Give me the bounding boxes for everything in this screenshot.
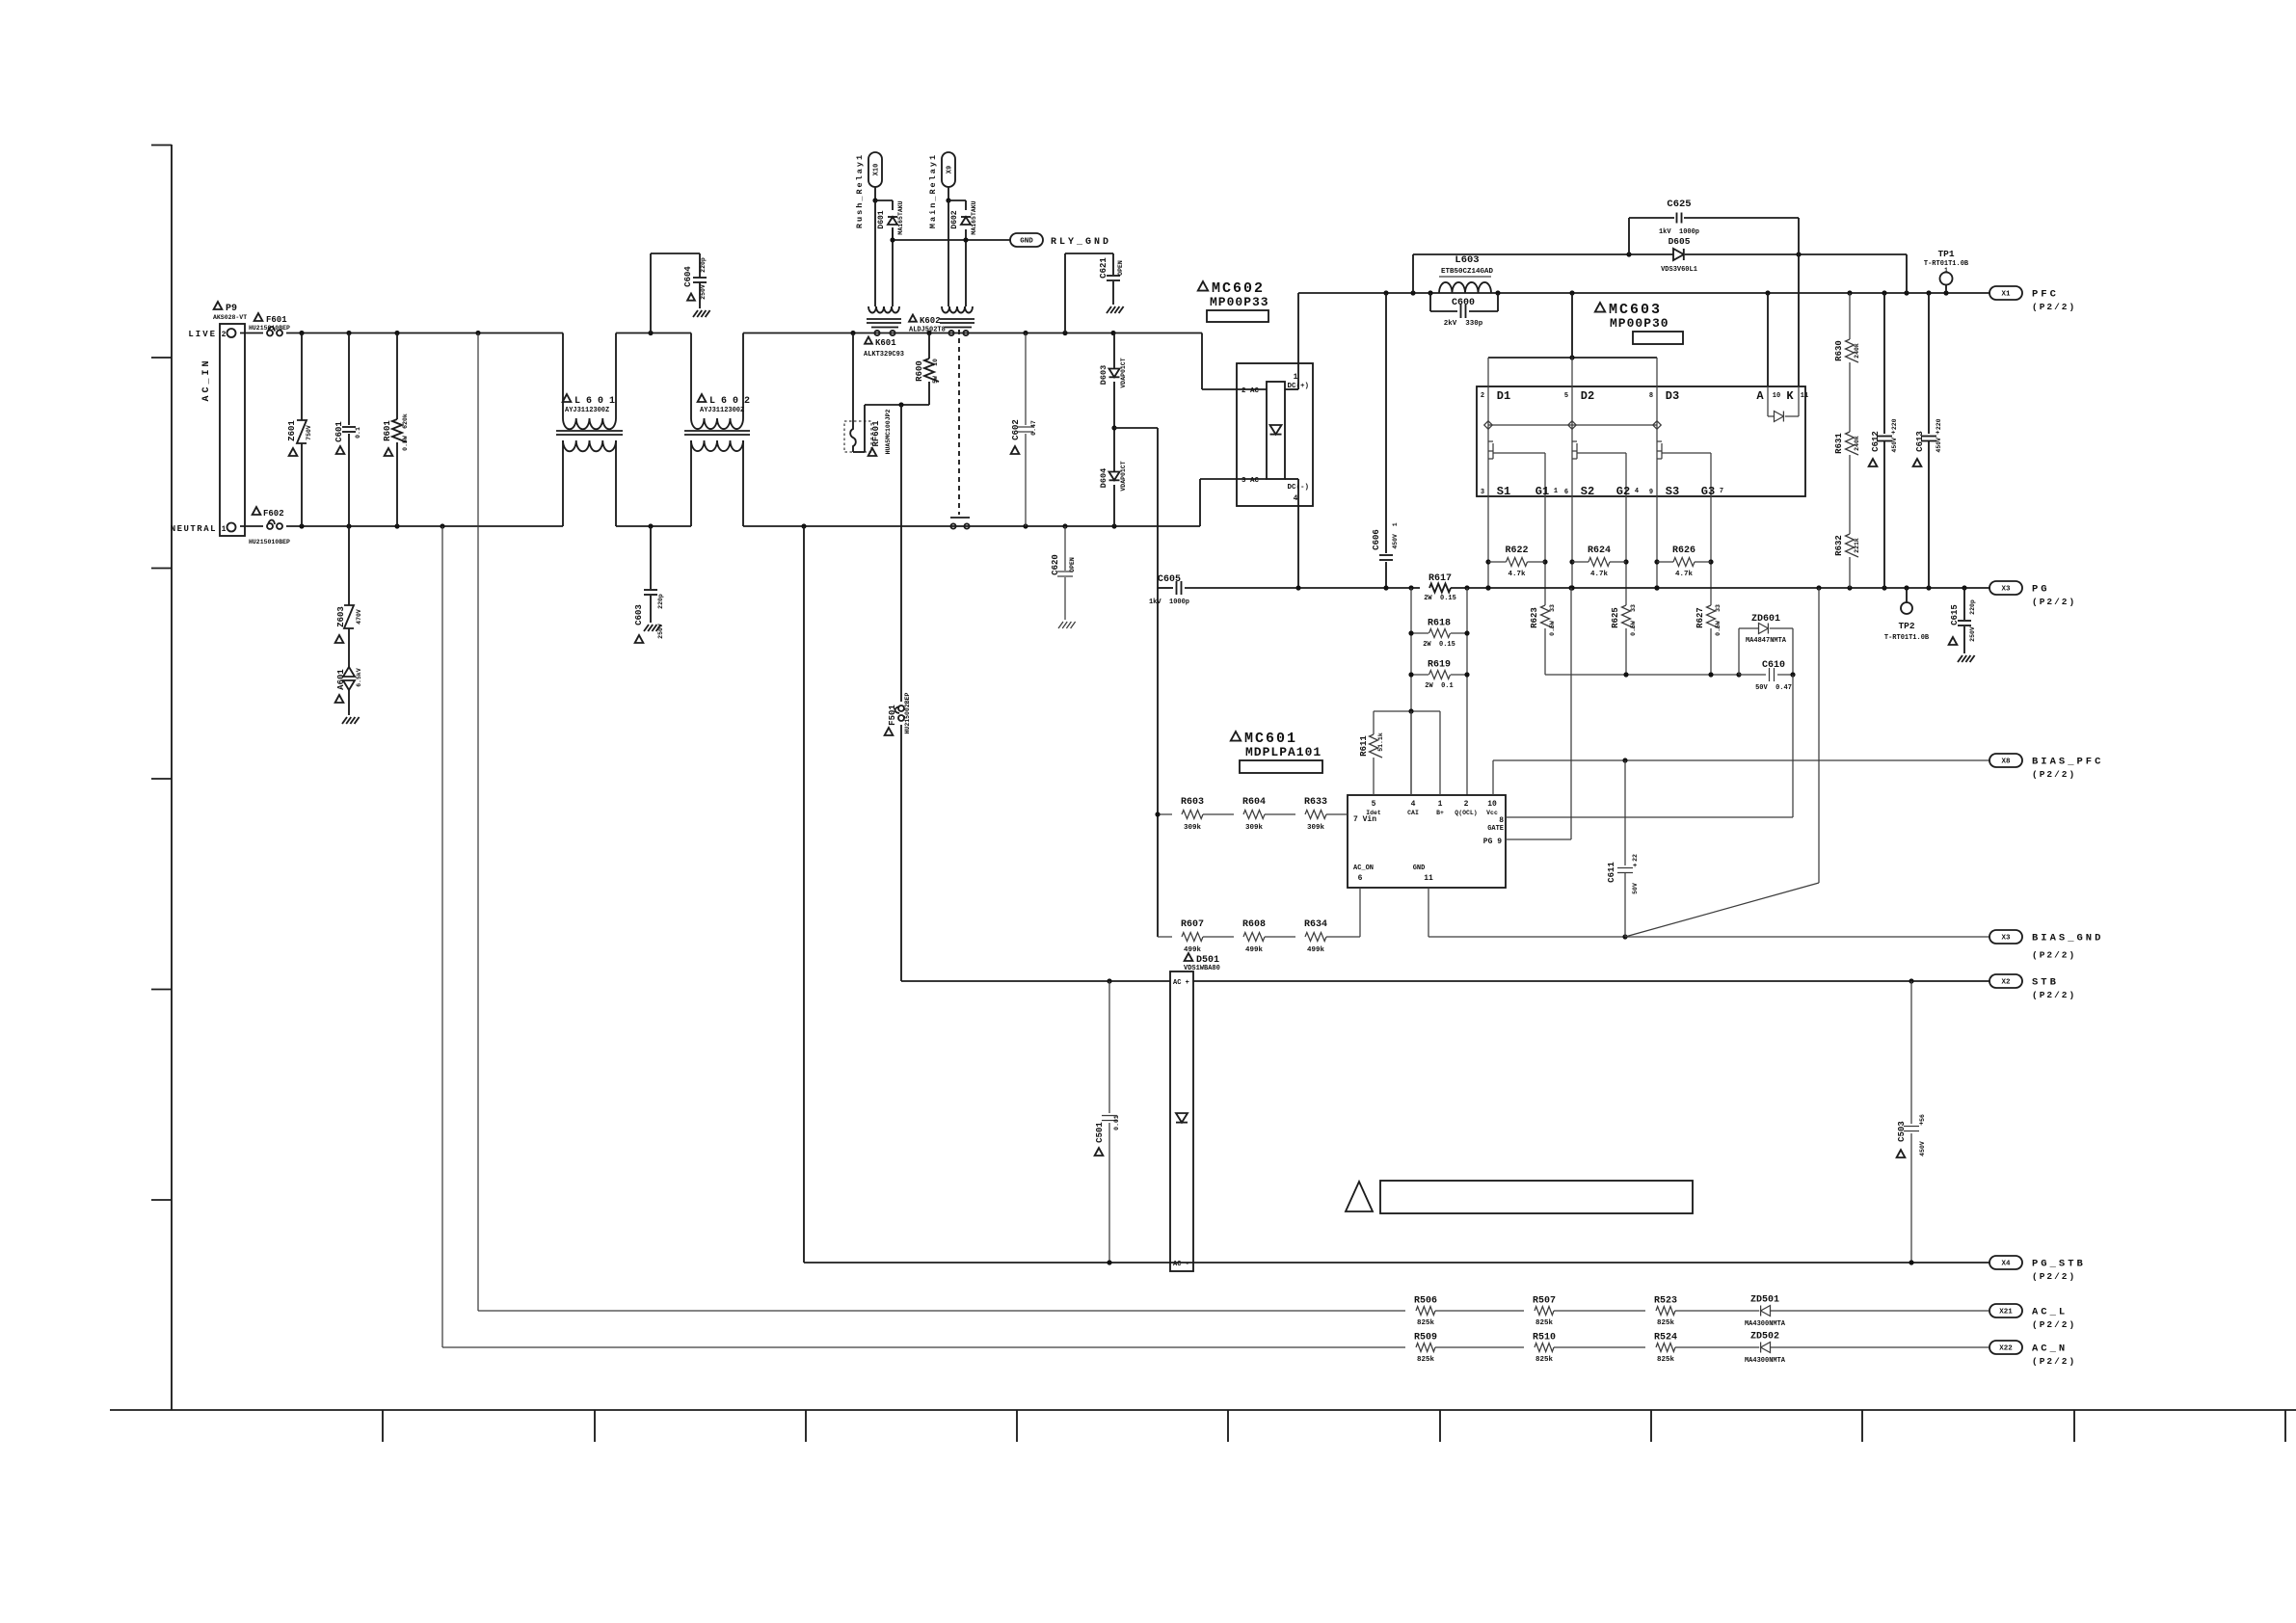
svg-text:HU215010BEP: HU215010BEP <box>249 539 290 545</box>
svg-text:OPEN: OPEN <box>1117 260 1124 276</box>
svg-text:L603: L603 <box>1455 254 1479 266</box>
svg-text:250V: 250V <box>1969 626 1976 642</box>
svg-text:K601: K601 <box>875 338 896 348</box>
svg-text:Z601: Z601 <box>287 420 297 441</box>
svg-text:7: 7 <box>1720 488 1723 495</box>
svg-text:ZD502: ZD502 <box>1750 1332 1779 1343</box>
svg-text:250V: 250V <box>700 284 707 300</box>
svg-text:C600: C600 <box>1452 298 1475 308</box>
svg-text:4: 4 <box>1635 488 1639 495</box>
svg-text:R608: R608 <box>1242 919 1266 930</box>
svg-text:240k: 240k <box>1854 343 1860 359</box>
svg-text:4.7k: 4.7k <box>1675 571 1694 578</box>
svg-text:221k: 221k <box>1854 538 1860 553</box>
svg-text:499k: 499k <box>1307 946 1325 954</box>
svg-text:(P2/2): (P2/2) <box>2032 769 2076 780</box>
svg-text:R507: R507 <box>1533 1296 1556 1307</box>
svg-text:AC +: AC + <box>1173 979 1189 987</box>
svg-text:C620: C620 <box>1051 554 1060 575</box>
svg-text:825k: 825k <box>1417 1319 1435 1327</box>
svg-text:3 AC: 3 AC <box>1241 477 1260 485</box>
svg-text:C613: C613 <box>1915 431 1925 452</box>
svg-text:R630: R630 <box>1834 340 1844 361</box>
svg-text:450V: 450V <box>1919 1141 1926 1157</box>
svg-text:R600: R600 <box>915 360 924 382</box>
svg-text:220p: 220p <box>657 594 664 609</box>
svg-text:T-RT01T1.0B: T-RT01T1.0B <box>1884 634 1930 642</box>
svg-text:R625: R625 <box>1611 607 1620 628</box>
svg-text:R619: R619 <box>1428 660 1451 671</box>
svg-text:G2: G2 <box>1616 485 1630 498</box>
svg-text:1kV 1000p: 1kV 1000p <box>1659 228 1699 236</box>
svg-text:K602: K602 <box>920 316 941 326</box>
svg-text:C603: C603 <box>634 604 644 625</box>
svg-text:X22: X22 <box>1999 1345 2013 1353</box>
svg-text:C606: C606 <box>1372 529 1381 550</box>
svg-text:C610: C610 <box>1762 660 1785 671</box>
svg-text:51.1k: 51.1k <box>1377 732 1384 752</box>
svg-text:R634: R634 <box>1304 919 1327 930</box>
svg-text:(P2/2): (P2/2) <box>2032 1271 2076 1282</box>
svg-text:50V 0.47: 50V 0.47 <box>1755 684 1792 692</box>
svg-text:BIAS_GND: BIAS_GND <box>2032 933 2103 945</box>
svg-text:0.1: 0.1 <box>355 427 361 439</box>
svg-text:309k: 309k <box>1184 824 1202 832</box>
svg-text:220p: 220p <box>1969 599 1976 615</box>
svg-text:AYJ3112300Z: AYJ3112300Z <box>565 407 609 414</box>
svg-text:CAI: CAI <box>1407 810 1419 816</box>
svg-text:MA4300NMTA: MA4300NMTA <box>1745 1320 1786 1328</box>
svg-text:R523: R523 <box>1654 1296 1677 1307</box>
svg-text:X3: X3 <box>2001 586 2011 594</box>
svg-text:33: 33 <box>1715 604 1722 612</box>
svg-text:GND: GND <box>1413 865 1426 872</box>
svg-text:C621: C621 <box>1099 257 1108 279</box>
svg-text:R623: R623 <box>1530 607 1539 628</box>
svg-text:TP2: TP2 <box>1898 621 1914 631</box>
svg-text:D3: D3 <box>1666 389 1679 403</box>
svg-text:ETB50CZ14GAD: ETB50CZ14GAD <box>1441 268 1494 276</box>
svg-text:X10: X10 <box>873 164 881 176</box>
svg-text:VDS1WBA80: VDS1WBA80 <box>1184 965 1220 972</box>
svg-text:(P2/2): (P2/2) <box>2032 302 2076 312</box>
svg-text:A601: A601 <box>336 669 346 690</box>
svg-text:X8: X8 <box>2001 758 2011 766</box>
svg-text:1: 1 <box>1554 488 1558 495</box>
svg-text:(P2/2): (P2/2) <box>2032 990 2076 1000</box>
svg-text:4.7k: 4.7k <box>1508 571 1526 578</box>
svg-text:MA165TAKU: MA165TAKU <box>897 200 904 234</box>
svg-text:F602: F602 <box>263 509 284 519</box>
svg-text:Rush_Relay1: Rush_Relay1 <box>855 153 865 228</box>
svg-text:S3: S3 <box>1666 485 1679 498</box>
svg-text:2 AC: 2 AC <box>1241 387 1260 395</box>
svg-text:MP00P30: MP00P30 <box>1610 316 1669 331</box>
svg-text:10: 10 <box>1773 392 1780 400</box>
svg-text:450V 220: 450V 220 <box>1891 418 1898 452</box>
svg-text:620k: 620k <box>402 413 409 429</box>
svg-text:Q(OCL): Q(OCL) <box>1455 810 1477 816</box>
svg-text:R622: R622 <box>1505 545 1528 556</box>
svg-text:L 6 0 2: L 6 0 2 <box>709 396 750 407</box>
svg-text:R607: R607 <box>1181 919 1204 930</box>
svg-text:2W 0.15: 2W 0.15 <box>1424 595 1456 602</box>
svg-text:R510: R510 <box>1533 1333 1556 1344</box>
svg-text:R617: R617 <box>1428 573 1452 584</box>
svg-text:TP1: TP1 <box>1937 249 1954 259</box>
svg-text:X1: X1 <box>2001 291 2011 299</box>
svg-text:D603: D603 <box>1099 365 1108 385</box>
svg-text:22: 22 <box>1632 854 1639 862</box>
svg-text:BIAS_PFC: BIAS_PFC <box>2032 757 2103 768</box>
svg-text:HU215002BEP: HU215002BEP <box>904 692 911 733</box>
svg-text:8: 8 <box>1499 816 1504 825</box>
svg-text:PG_STB: PG_STB <box>2032 1259 2086 1270</box>
svg-text:C615: C615 <box>1950 604 1960 625</box>
svg-text:AKS028-VT: AKS028-VT <box>213 314 247 321</box>
svg-text:ALDJ502T8: ALDJ502T8 <box>909 327 946 334</box>
svg-text:1kV 1000p: 1kV 1000p <box>1149 599 1189 606</box>
svg-text:RLY_GND: RLY_GND <box>1051 237 1111 248</box>
svg-text:C601: C601 <box>334 421 344 442</box>
svg-text:X4: X4 <box>2001 1261 2011 1268</box>
svg-text:0.47: 0.47 <box>1030 420 1037 436</box>
svg-text:R624: R624 <box>1588 545 1611 556</box>
svg-text:1: 1 <box>1438 800 1443 809</box>
svg-text:HU215010BEP: HU215010BEP <box>249 325 290 332</box>
svg-text:AYJ3112300Z: AYJ3112300Z <box>700 407 744 414</box>
svg-text:50V: 50V <box>1632 883 1639 894</box>
svg-text:0.01: 0.01 <box>1113 1115 1120 1131</box>
svg-text:0.5W: 0.5W <box>1630 621 1637 636</box>
svg-text:D1: D1 <box>1497 389 1510 403</box>
svg-text:2: 2 <box>222 331 227 339</box>
svg-text:6.5kV: 6.5kV <box>356 668 362 687</box>
svg-text:6: 6 <box>1564 489 1568 496</box>
svg-text:825k: 825k <box>1417 1356 1435 1364</box>
svg-text:C625: C625 <box>1667 199 1691 210</box>
svg-text:D605: D605 <box>1669 236 1691 247</box>
svg-text:2: 2 <box>1481 392 1484 400</box>
svg-text:R633: R633 <box>1304 797 1327 808</box>
svg-text:5: 5 <box>1372 800 1376 809</box>
svg-text:R603: R603 <box>1181 797 1204 808</box>
svg-text:9: 9 <box>1649 489 1653 496</box>
svg-text:GND: GND <box>1020 238 1033 246</box>
svg-text:ALKT329C93: ALKT329C93 <box>864 351 904 359</box>
svg-text:Vcc: Vcc <box>1486 810 1498 816</box>
svg-text:825k: 825k <box>1535 1319 1554 1327</box>
svg-text:C602: C602 <box>1011 419 1021 440</box>
svg-text:450V 1: 450V 1 <box>1392 522 1399 548</box>
svg-text:(P2/2): (P2/2) <box>2032 597 2076 607</box>
svg-text:C611: C611 <box>1607 862 1616 883</box>
svg-text:GATE: GATE <box>1487 825 1504 833</box>
svg-text:R604: R604 <box>1242 797 1266 808</box>
svg-text:C503: C503 <box>1897 1121 1907 1142</box>
svg-text:+: + <box>1633 863 1637 870</box>
svg-text:10: 10 <box>1487 800 1497 809</box>
svg-text:10: 10 <box>932 359 939 366</box>
svg-text:AC_N: AC_N <box>2032 1344 2068 1355</box>
svg-text:X2: X2 <box>2001 979 2011 987</box>
svg-text:C605: C605 <box>1158 574 1181 585</box>
svg-text:LIVE: LIVE <box>188 330 217 339</box>
svg-text:MA4847NMTA: MA4847NMTA <box>1746 637 1787 645</box>
svg-text:750V: 750V <box>306 425 312 440</box>
svg-text:R618: R618 <box>1428 619 1451 629</box>
svg-text:X21: X21 <box>1999 1309 2013 1317</box>
svg-text:56: 56 <box>1919 1114 1926 1122</box>
svg-text:309k: 309k <box>1245 824 1264 832</box>
svg-text:HUA5MC100JP2: HUA5MC100JP2 <box>885 409 892 454</box>
svg-text:R611: R611 <box>1359 735 1369 757</box>
svg-text:C501: C501 <box>1095 1122 1105 1143</box>
svg-text:A: A <box>1756 389 1764 403</box>
svg-text:P9: P9 <box>226 304 237 314</box>
svg-text:33: 33 <box>1549 604 1556 612</box>
svg-text:PG 9: PG 9 <box>1483 838 1502 846</box>
svg-text:PG: PG <box>2032 584 2050 596</box>
svg-text:309k: 309k <box>1307 824 1325 832</box>
svg-text:220p: 220p <box>700 257 707 273</box>
svg-text:4: 4 <box>1294 494 1298 503</box>
svg-text:F601: F601 <box>266 315 287 325</box>
svg-text:MA165TAKU: MA165TAKU <box>971 200 977 234</box>
svg-text:MP00P33: MP00P33 <box>1210 295 1269 309</box>
svg-text:S2: S2 <box>1581 485 1594 498</box>
svg-text:VDAP01CT: VDAP01CT <box>1120 461 1127 491</box>
svg-text:B+: B+ <box>1436 810 1444 816</box>
svg-text:AC_L: AC_L <box>2032 1307 2068 1318</box>
svg-text:AC_ON: AC_ON <box>1353 865 1374 872</box>
svg-text:0.5W: 0.5W <box>402 436 409 451</box>
svg-text:STB: STB <box>2032 977 2059 989</box>
svg-text:R524: R524 <box>1654 1333 1677 1344</box>
svg-text:499k: 499k <box>1184 946 1202 954</box>
svg-text:D601: D601 <box>877 210 886 228</box>
svg-text:470V: 470V <box>356 609 362 625</box>
svg-text:2W 0.15: 2W 0.15 <box>1423 641 1455 649</box>
svg-text:5: 5 <box>1564 392 1568 400</box>
svg-text:C612: C612 <box>1871 431 1881 452</box>
svg-text:R601: R601 <box>383 420 392 441</box>
svg-text:NEUTRAL: NEUTRAL <box>171 524 217 534</box>
svg-text:C604: C604 <box>683 266 693 287</box>
svg-text:VDAP01CT: VDAP01CT <box>1120 358 1127 387</box>
svg-text:240k: 240k <box>1854 436 1860 451</box>
svg-text:11: 11 <box>1801 392 1808 400</box>
svg-text:Z603: Z603 <box>336 606 346 627</box>
svg-text:RF601: RF601 <box>871 420 881 447</box>
svg-text:D2: D2 <box>1581 389 1594 403</box>
svg-text:L 6 0 1: L 6 0 1 <box>574 396 615 407</box>
svg-text:2kV 330p: 2kV 330p <box>1444 320 1483 328</box>
svg-text:5W: 5W <box>932 376 939 384</box>
svg-text:(P2/2): (P2/2) <box>2032 1319 2076 1330</box>
svg-text:MA4300NMTA: MA4300NMTA <box>1745 1357 1786 1365</box>
svg-text:3: 3 <box>1481 489 1484 496</box>
svg-text:D604: D604 <box>1099 468 1108 488</box>
svg-text:AC_IN: AC_IN <box>201 358 212 401</box>
svg-text:1: 1 <box>1944 267 1948 274</box>
svg-text:450V 220: 450V 220 <box>1936 418 1942 452</box>
svg-text:11: 11 <box>1424 874 1433 883</box>
svg-text:825k: 825k <box>1535 1356 1554 1364</box>
svg-text:PFC: PFC <box>2032 289 2059 301</box>
svg-text:ZD601: ZD601 <box>1751 614 1780 625</box>
svg-text:G3: G3 <box>1701 485 1715 498</box>
svg-text:1: 1 <box>1294 373 1298 382</box>
svg-text:X3: X3 <box>2001 935 2011 943</box>
svg-text:R632: R632 <box>1834 535 1844 556</box>
svg-text:G1: G1 <box>1535 485 1549 498</box>
svg-text:0.5W: 0.5W <box>1715 621 1722 636</box>
svg-text:7 Vin: 7 Vin <box>1353 815 1376 824</box>
svg-text:250V: 250V <box>657 624 664 639</box>
svg-text:8: 8 <box>1649 392 1653 400</box>
svg-text:MDPLPA101: MDPLPA101 <box>1245 745 1322 759</box>
svg-text:(P2/2): (P2/2) <box>2032 1356 2076 1367</box>
svg-text:X9: X9 <box>947 166 954 173</box>
svg-text:0.5W: 0.5W <box>1549 621 1556 636</box>
svg-text:33: 33 <box>1630 604 1637 612</box>
svg-text:(P2/2): (P2/2) <box>2032 950 2076 961</box>
svg-text:R506: R506 <box>1414 1296 1437 1307</box>
svg-text:R509: R509 <box>1414 1333 1437 1344</box>
svg-text:D602: D602 <box>950 210 959 228</box>
svg-text:825k: 825k <box>1657 1319 1675 1327</box>
svg-text:R627: R627 <box>1695 607 1705 628</box>
svg-text:1: 1 <box>222 525 227 534</box>
svg-text:4: 4 <box>1411 800 1416 809</box>
svg-text:F501: F501 <box>888 705 897 726</box>
svg-text:2: 2 <box>1464 800 1469 809</box>
svg-text:499k: 499k <box>1245 946 1264 954</box>
svg-text:VDS3V60L1: VDS3V60L1 <box>1661 266 1697 274</box>
svg-text:Main_Relay1: Main_Relay1 <box>928 153 938 228</box>
svg-text:R631: R631 <box>1834 433 1844 454</box>
svg-text:4.7k: 4.7k <box>1590 571 1609 578</box>
svg-text:K: K <box>1786 389 1794 403</box>
svg-text:825k: 825k <box>1657 1356 1675 1364</box>
svg-text:S1: S1 <box>1497 485 1510 498</box>
svg-text:6: 6 <box>1358 874 1363 883</box>
svg-text:2W 0.1: 2W 0.1 <box>1425 682 1453 690</box>
svg-text:R626: R626 <box>1672 545 1695 556</box>
svg-text:OPEN: OPEN <box>1069 557 1076 572</box>
svg-text:ZD501: ZD501 <box>1750 1295 1779 1306</box>
